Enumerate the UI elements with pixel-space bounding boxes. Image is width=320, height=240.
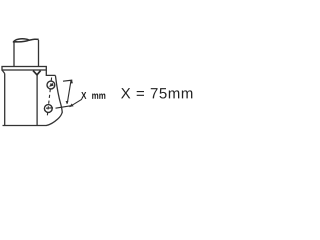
flange (spring seat collar) (2, 67, 46, 71)
center line between holes (dashed) (47, 78, 51, 117)
hole H2 (lower) (44, 105, 52, 113)
break squiggle (torn tube top) (13, 39, 29, 43)
leader from X mm label (70, 99, 83, 107)
extension line top (63, 80, 72, 81)
strut piston rod / tube (14, 40, 39, 67)
label X = 75mm (121, 88, 192, 98)
hole H1 center mark (wedge) (49, 83, 54, 87)
bracket bottom curve (46, 112, 62, 126)
dimension arrow bottom (66, 101, 69, 104)
housing body right edge (36, 75, 38, 126)
hole H1 (upper) (47, 81, 55, 89)
bracket step from flange (46, 70, 55, 75)
housing body left edge (4, 74, 6, 126)
housing body bottom edge (3, 125, 47, 127)
dimension line (67, 81, 71, 104)
leader arrowhead (69, 104, 73, 107)
bracket right edge (55, 75, 62, 112)
weld notch V (33, 71, 41, 75)
dimension arrow top (70, 80, 73, 84)
label X mm (81, 92, 105, 99)
extension line bottom (56, 106, 71, 108)
housing body chamfer (2, 70, 5, 74)
hole H2 center mark (46, 107, 53, 109)
